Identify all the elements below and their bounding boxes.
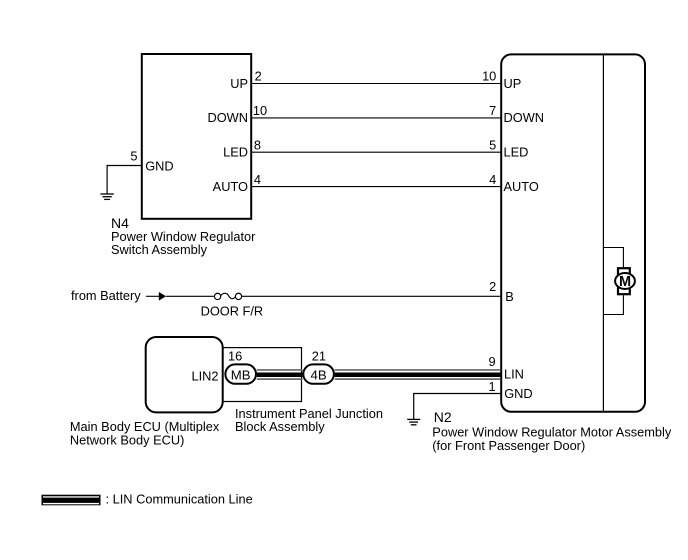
svg-text:5: 5 (489, 137, 496, 152)
svg-text:AUTO: AUTO (213, 179, 248, 194)
svg-text:2: 2 (255, 69, 262, 84)
svg-text:UP: UP (230, 76, 248, 91)
svg-text:: LIN Communication Line: : LIN Communication Line (106, 491, 253, 506)
svg-text:Switch Assembly: Switch Assembly (111, 242, 208, 257)
svg-text:Network Body ECU): Network Body ECU) (70, 432, 184, 447)
svg-text:16: 16 (228, 349, 242, 364)
svg-text:10: 10 (253, 103, 267, 118)
svg-text:5: 5 (130, 148, 137, 163)
svg-text:MB: MB (231, 368, 251, 383)
svg-text:LED: LED (223, 145, 248, 160)
svg-text:7: 7 (489, 103, 496, 118)
svg-text:21: 21 (312, 349, 326, 364)
svg-text:LIN: LIN (504, 366, 524, 381)
svg-text:GND: GND (504, 386, 532, 401)
svg-text:10: 10 (482, 69, 496, 84)
svg-text:9: 9 (488, 354, 495, 369)
svg-text:Block Assembly: Block Assembly (235, 419, 325, 434)
svg-text:1: 1 (488, 379, 495, 394)
svg-text:DOWN: DOWN (207, 110, 248, 125)
svg-text:UP: UP (504, 76, 522, 91)
svg-text:8: 8 (254, 137, 261, 152)
svg-text:LIN2: LIN2 (191, 368, 218, 383)
svg-text:(for Front Passenger Door): (for Front Passenger Door) (432, 438, 585, 453)
svg-text:AUTO: AUTO (504, 179, 539, 194)
svg-text:4: 4 (489, 172, 496, 187)
svg-text:GND: GND (145, 158, 173, 173)
svg-text:M: M (619, 274, 631, 290)
svg-text:LED: LED (504, 145, 529, 160)
svg-text:4: 4 (254, 172, 261, 187)
svg-text:from Battery: from Battery (71, 288, 141, 303)
svg-text:DOOR F/R: DOOR F/R (201, 303, 264, 318)
svg-text:4B: 4B (311, 368, 327, 383)
svg-text:B: B (505, 289, 514, 304)
svg-text:DOWN: DOWN (504, 110, 545, 125)
svg-text:2: 2 (489, 279, 496, 294)
svg-text:N2: N2 (434, 409, 452, 425)
